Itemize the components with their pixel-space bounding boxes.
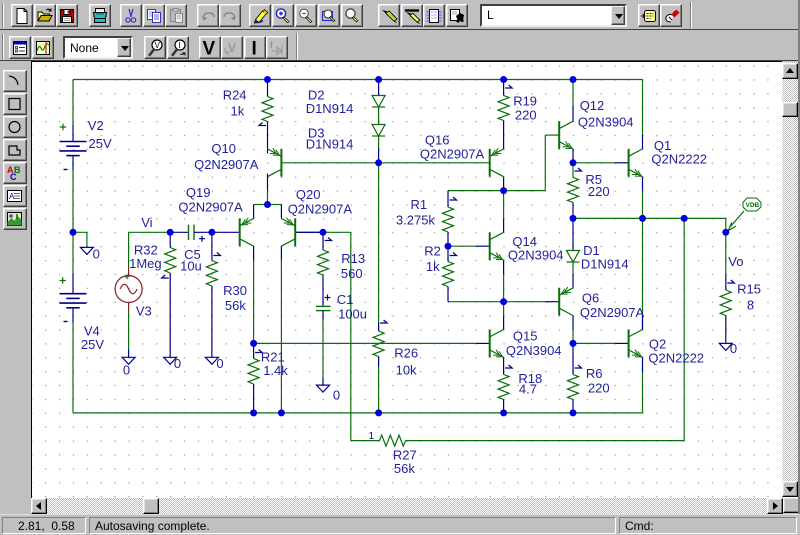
svg-text:Q2N3904: Q2N3904 (506, 343, 562, 358)
svg-text:Q2N2907A: Q2N2907A (420, 146, 485, 161)
wire Q20 collector drop (280, 246, 282, 260)
wire R2 node to Q14 base (448, 245, 476, 247)
wire Q12 base drop (544, 135, 546, 191)
ground supply midpoint (80, 247, 93, 254)
ac source V3 (128, 267, 130, 276)
wire feedback vertical (350, 232, 352, 440)
wire V3 to Vi node (129, 231, 171, 233)
node dot bases D3 (375, 159, 382, 166)
node dot Q12 emitter (570, 159, 577, 166)
wire Q1 emitter drop (642, 176, 644, 190)
svg-text:I: I (270, 40, 273, 51)
svg-text:220: 220 (588, 184, 610, 199)
svg-text:56k: 56k (394, 461, 415, 476)
svg-text:1: 1 (369, 431, 375, 442)
wire top +25V rail (73, 78, 643, 80)
svg-text:3.275k: 3.275k (396, 212, 436, 227)
wire Q6 base lead (545, 300, 559, 302)
svg-text:0: 0 (174, 356, 181, 371)
wire y190 R1 to Q12-base jog (448, 189, 545, 191)
svg-text:V2: V2 (88, 117, 104, 132)
wire R15 top (725, 232, 727, 274)
svg-text:0: 0 (93, 246, 100, 261)
wire Q12 emitter to node (572, 148, 574, 162)
wire feedback riser (683, 218, 685, 440)
wire Q16 collector drop (503, 176, 505, 190)
resistor R26 (380, 320, 387, 323)
wire R5 top lead (572, 162, 574, 177)
svg-text:R13: R13 (341, 250, 365, 265)
ground R32 (169, 346, 171, 357)
wire rail down to Q1 collector (642, 79, 644, 135)
svg-text:Q16: Q16 (425, 132, 450, 147)
wire D3 node down to R26 (378, 162, 380, 322)
node dot Q6 collector (570, 339, 577, 346)
node dot Q12 collector (570, 76, 577, 83)
probe marker VDB (743, 198, 761, 211)
wire diff tail left (254, 203, 268, 205)
svg-text:1k: 1k (426, 259, 440, 274)
svg-text:1.4k: 1.4k (263, 362, 288, 377)
resistor R30 (213, 252, 220, 255)
node dot R19 top (500, 76, 507, 83)
transistor Q6 (558, 287, 560, 315)
schematic drawing area (31, 61, 782, 498)
node dot D2 top (375, 76, 382, 83)
dc source V4 (72, 273, 74, 293)
wire Q2 emitter drop (642, 357, 644, 371)
resistor R13 (325, 237, 332, 240)
transistor Q14 (476, 245, 490, 247)
wire output rail (573, 218, 726, 232)
svg-text:I: I (178, 41, 180, 50)
transistor Q15 (476, 342, 490, 344)
left tool palette (3, 70, 27, 92)
node dot Q14 emitter (500, 298, 507, 305)
wire Q14 emitter drop (503, 260, 505, 274)
node dot feedback tap (681, 214, 688, 221)
svg-text:Vi: Vi (141, 214, 152, 229)
svg-text:Q2: Q2 (649, 336, 666, 351)
svg-text:V: V (155, 41, 161, 50)
wire Q20 emitter stub (280, 204, 282, 218)
node dot R26 bottom (375, 409, 382, 416)
diode D1 (572, 218, 574, 250)
wire Q12 collector rise (572, 105, 574, 121)
svg-text:R26: R26 (394, 345, 418, 360)
svg-text:Q2N2907A: Q2N2907A (194, 157, 259, 172)
wire midpoint ground jog (73, 232, 87, 247)
wire V3 top lead (128, 232, 130, 267)
node dot Q20 collector bottom (278, 409, 285, 416)
svg-text:220: 220 (515, 107, 537, 122)
svg-text:Q10: Q10 (211, 141, 236, 156)
status bar (0, 514, 800, 535)
wire Q19 collector drop (253, 246, 255, 260)
svg-text:R24: R24 (223, 87, 247, 102)
node dot R5 bottom (570, 214, 577, 221)
svg-text:Q2N3904: Q2N3904 (508, 247, 564, 262)
simulation profile combobox (63, 36, 133, 59)
svg-text:220: 220 (588, 380, 610, 395)
resistor R5 (575, 168, 582, 171)
ground R30 (211, 346, 213, 357)
wire D1 to Q6 emitter (572, 262, 574, 274)
diode D3 (372, 124, 385, 136)
wire Q19 emitter stub (253, 204, 255, 218)
svg-text:10k: 10k (396, 362, 417, 377)
right window frame (798, 0, 800, 535)
node dot R18 bottom (500, 409, 507, 416)
wire diff tail right (268, 203, 282, 205)
wire Q20 base to R13 node (295, 231, 323, 233)
svg-text:Q6: Q6 (582, 290, 599, 305)
svg-text:R15: R15 (737, 281, 761, 296)
transistor Q1 (628, 148, 630, 176)
svg-text:D1N914: D1N914 (306, 100, 354, 115)
transistor Q12 (558, 121, 560, 149)
node dot R21 top (250, 339, 257, 346)
transistor Q20 (295, 231, 323, 233)
circuit svg (31, 62, 781, 498)
wire R13 node to feedback corner (323, 231, 351, 233)
node dot R24 top (264, 76, 271, 83)
node dot y190 (500, 187, 507, 194)
resistor R32 (169, 232, 171, 247)
wire Q10 base to Q16 base (281, 161, 489, 163)
svg-text:R30: R30 (223, 283, 247, 298)
svg-text:10u: 10u (180, 258, 202, 273)
svg-text:Q19: Q19 (186, 184, 211, 199)
svg-text:0: 0 (123, 362, 130, 377)
svg-text:C1: C1 (337, 291, 354, 306)
resistor R24 (267, 79, 269, 96)
svg-text:Q12: Q12 (580, 98, 605, 113)
wire midpoint to V4 (72, 232, 74, 273)
wire y162 Q12 to Q1 base (573, 161, 615, 163)
wire V2 to midpoint (72, 170, 74, 232)
svg-text:Vo: Vo (728, 254, 743, 269)
svg-text:8: 8 (747, 297, 754, 312)
diode D2 (378, 79, 380, 95)
svg-text:V3: V3 (136, 303, 152, 318)
ground V3 (128, 349, 130, 357)
svg-text:25V: 25V (89, 135, 112, 150)
resistor R6 (575, 365, 582, 368)
resistor R18 (505, 365, 512, 368)
wire V2 top (72, 79, 74, 124)
wire R27 to right riser (406, 439, 685, 441)
svg-text:1Meg: 1Meg (129, 256, 162, 271)
svg-text:R19: R19 (513, 93, 537, 108)
transistor Q19 (212, 231, 240, 233)
node dot C5 out (208, 228, 215, 235)
node dot R21 bottom (250, 409, 257, 416)
wire Q14 collector rise (503, 218, 505, 232)
svg-text:Q2N2222: Q2N2222 (648, 350, 704, 365)
svg-text:Q20: Q20 (296, 187, 321, 202)
node dot Vi (167, 228, 174, 235)
capacitor C1 (316, 305, 331, 307)
svg-text:V: V (228, 41, 236, 55)
resistor R19 (505, 85, 512, 88)
node dot Q1 emitter (639, 214, 646, 221)
resistor R21 (255, 349, 262, 352)
wire V4 to rail (72, 323, 74, 413)
wire y343 R21 to Q15 base (254, 342, 476, 344)
node dot supply midpoint (70, 228, 77, 235)
svg-text:Q15: Q15 (513, 328, 538, 343)
ground R15 (725, 334, 727, 343)
capacitor C5 (170, 231, 188, 233)
transistor Q2 (628, 329, 630, 357)
svg-text:0: 0 (216, 356, 223, 371)
wire R26 bottom to rail (378, 366, 380, 412)
wire y343 Q6 to Q2 base (573, 342, 615, 344)
node dot Q20 base (320, 228, 327, 235)
ground C1 (322, 377, 324, 385)
svg-text:0: 0 (730, 341, 737, 356)
wire bottom -25V rail (73, 411, 643, 413)
node dot Vo (722, 228, 729, 235)
vertical scrollbar (782, 62, 798, 497)
wire Q2 collector rise (642, 218, 644, 329)
svg-text:I: I (251, 38, 256, 58)
transistor Q10 (267, 148, 269, 153)
node dot R6 bottom (570, 409, 577, 416)
toolbar row 2 (0, 31, 800, 61)
resistor R1 (450, 197, 457, 200)
wire V3 bottom lead (128, 310, 130, 349)
svg-text:R6: R6 (586, 366, 603, 381)
resistor R15 (727, 280, 734, 283)
wire y302 R2 to Q6 base (448, 300, 545, 302)
svg-text:100u: 100u (338, 306, 367, 321)
svg-text:Q2N2907A: Q2N2907A (178, 199, 243, 214)
svg-text:1k: 1k (231, 103, 245, 118)
svg-text:C: C (10, 172, 17, 182)
part name combobox (480, 4, 627, 27)
svg-text:R1: R1 (411, 197, 428, 212)
svg-text:R2: R2 (424, 243, 441, 258)
svg-text:0: 0 (333, 387, 340, 402)
svg-text:VDB: VDB (746, 202, 760, 209)
svg-text:560: 560 (341, 265, 363, 280)
wire Q10 collector drop (267, 176, 269, 190)
svg-text:V: V (202, 38, 215, 58)
wire Q15 collector rise (503, 315, 505, 329)
svg-text:D1N914: D1N914 (306, 136, 354, 151)
resistor R27 (380, 435, 406, 446)
svg-text:Q2N2907A: Q2N2907A (580, 305, 645, 320)
toolbar row 1 (0, 0, 800, 30)
svg-text:25V: 25V (81, 336, 104, 351)
node dot diff tail (264, 201, 271, 208)
svg-text:56k: 56k (225, 297, 246, 312)
svg-text:Q2N3904: Q2N3904 (578, 114, 634, 129)
svg-text:Q2N2222: Q2N2222 (651, 151, 707, 166)
transistor Q16 (489, 148, 491, 176)
dc source V2 (72, 124, 74, 141)
wire feedback bottom lead (351, 439, 380, 441)
wire Q12 base stub (545, 134, 559, 136)
node dot R1 R2 (445, 242, 452, 249)
resistor R2 (450, 252, 457, 255)
svg-text:Q2N2907A: Q2N2907A (288, 201, 353, 216)
svg-text:D1N914: D1N914 (581, 256, 629, 271)
horizontal scrollbar (31, 498, 783, 514)
svg-text:4.7: 4.7 (519, 381, 537, 396)
wire Q6 collector drop (572, 315, 574, 329)
